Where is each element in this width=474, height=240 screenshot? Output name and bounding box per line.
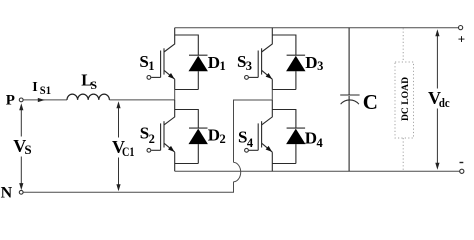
voltage arrow V_dc — [436, 34, 438, 165]
svg-text:D: D — [305, 128, 317, 147]
svg-text:DC LOAD: DC LOAD — [401, 77, 411, 121]
terminal DC+ — [459, 26, 463, 30]
svg-text:P: P — [6, 92, 15, 108]
wire P to inductor — [23, 99, 67, 101]
node P terminal — [19, 98, 23, 102]
DC load dashed box — [395, 28, 414, 171]
svg-text:C1: C1 — [122, 145, 135, 159]
voltage arrow V_S — [20, 108, 22, 185]
svg-text:4: 4 — [247, 136, 254, 150]
svg-text:D: D — [208, 53, 220, 72]
wire top DC+ rail — [175, 27, 459, 29]
svg-text:2: 2 — [149, 132, 155, 146]
svg-text:3: 3 — [317, 59, 323, 73]
svg-text:S1: S1 — [40, 85, 51, 97]
svg-text:D: D — [305, 53, 317, 72]
svg-text:1: 1 — [220, 59, 226, 73]
diode D2 — [175, 110, 208, 164]
voltage arrow V_C1 — [118, 106, 120, 186]
IGBT S2 — [151, 100, 175, 171]
wire node B riser — [234, 100, 273, 162]
svg-text:3: 3 — [246, 59, 252, 73]
svg-text:2: 2 — [220, 132, 226, 146]
svg-text:+: + — [458, 31, 465, 46]
diode D4 — [272, 110, 305, 164]
diode D1 — [175, 35, 208, 90]
IGBT S3 — [249, 28, 272, 90]
IGBT S4 — [249, 100, 272, 171]
svg-text:4: 4 — [317, 136, 324, 150]
inductor LS — [67, 94, 109, 100]
node N terminal — [19, 190, 23, 194]
wire inductor to node A — [109, 99, 174, 101]
svg-text:S: S — [90, 78, 97, 92]
wire node A (midpoint leg A) — [174, 90, 176, 101]
current arrow I_S1 — [38, 98, 45, 102]
wire hop over DC- rail — [234, 162, 241, 181]
wire node B (midpoint leg B) — [271, 90, 273, 101]
capacitor C — [340, 28, 359, 172]
svg-text:1: 1 — [148, 59, 154, 73]
svg-text:C: C — [363, 90, 378, 114]
wire N rail — [23, 182, 233, 193]
svg-text:dc: dc — [439, 96, 450, 110]
wire bottom DC- rail — [175, 170, 460, 172]
svg-text:I: I — [32, 80, 37, 95]
IGBT S1 — [151, 28, 175, 90]
svg-text:S: S — [24, 142, 31, 157]
diode D3 — [272, 35, 305, 90]
terminal DC- — [460, 169, 464, 173]
svg-text:D: D — [208, 126, 220, 145]
svg-text:N: N — [1, 185, 13, 198]
